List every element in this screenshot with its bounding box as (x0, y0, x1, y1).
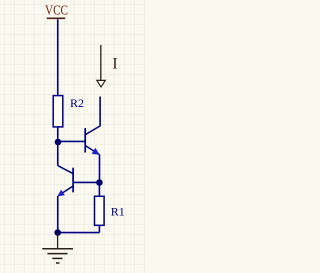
node B junction dot (96, 179, 103, 186)
resistor R2 (53, 96, 84, 127)
transistor Q1 (NPN) (85, 126, 100, 155)
ground (42, 233, 73, 263)
wire Q1 emitter down to node B (99, 155, 101, 183)
node A junction dot (55, 139, 62, 146)
svg-text:R1: R1 (111, 205, 125, 219)
power port VCC (45, 4, 68, 19)
wire Q2 emitter down to node C (57, 196, 59, 233)
wire R1 bottom to bottom rail (98, 225, 100, 232)
wire node A to Q1 base (58, 140, 85, 142)
wire node B down to R1 (98, 183, 100, 197)
svg-text:I: I (112, 55, 117, 72)
wire VCC to R2 (57, 19, 59, 95)
wire R2 to node A (57, 127, 59, 142)
resistor R1 (95, 196, 125, 225)
current arrow I (97, 45, 106, 87)
wire Q1 collector up (99, 97, 101, 127)
transistor Q2 (NPN mirrored) (57, 166, 73, 197)
svg-text:VCC: VCC (45, 4, 68, 19)
sheet background (0, 0, 147, 273)
wire node A to Q2 collector (57, 142, 59, 166)
wire bottom rail (58, 232, 100, 234)
wire node B to Q2 base (74, 181, 99, 183)
svg-text:R2: R2 (70, 96, 84, 110)
node C junction dot (54, 229, 61, 236)
